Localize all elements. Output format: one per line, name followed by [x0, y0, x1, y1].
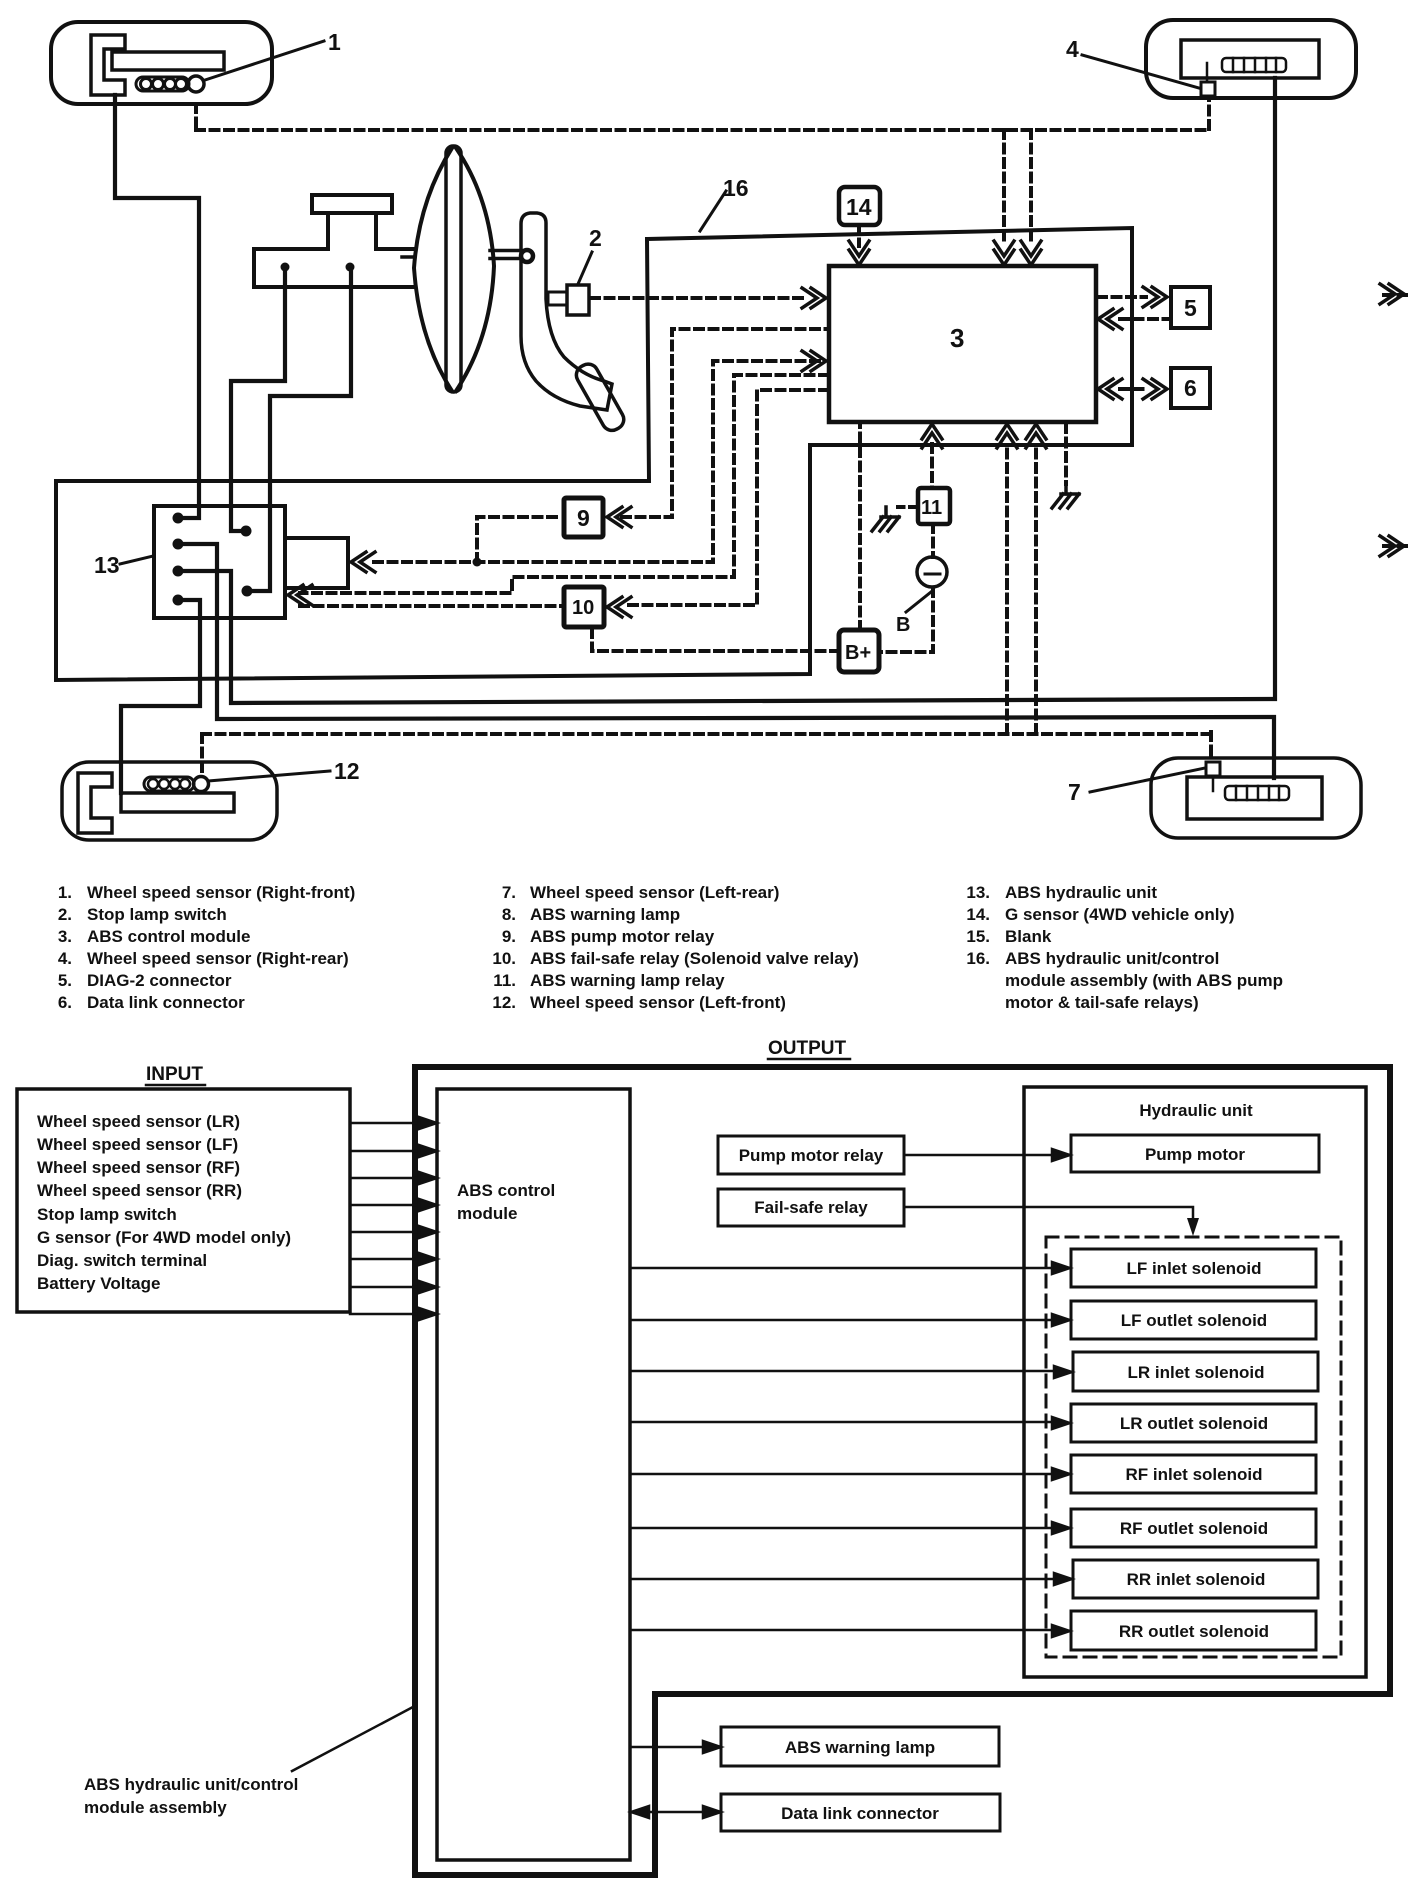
- wheel 4 sensor stem: [1206, 63, 1209, 82]
- svg-text:7: 7: [1068, 779, 1081, 805]
- brake booster shell left arc: [414, 148, 452, 391]
- svg-text:13.: 13.: [966, 883, 990, 902]
- bulb B filament: [925, 573, 940, 576]
- svg-text:Wheel speed sensor (Right-rear: Wheel speed sensor (Right-rear): [87, 949, 349, 968]
- dashed wire: module to ground right: [1064, 424, 1068, 484]
- svg-text:ABS warning lamp relay: ABS warning lamp relay: [530, 971, 725, 990]
- label 4 leader: [1082, 55, 1199, 88]
- svg-text:B+: B+: [845, 642, 871, 664]
- dashed wire: module to pump motor and relay 9: [368, 361, 819, 562]
- dashed wire: relay 9 to module: [622, 329, 827, 517]
- arrow into module left from stop lamp switch: [802, 288, 826, 308]
- hydraulic unit port pins: [173, 513, 253, 606]
- hydraulic unit title: [1139, 1101, 1253, 1120]
- svg-text:LF inlet solenoid: LF inlet solenoid: [1126, 1259, 1261, 1278]
- dashed wire: module to fail-safe relay 10: [623, 390, 828, 605]
- svg-text:Pump motor: Pump motor: [1145, 1145, 1245, 1164]
- master cylinder reservoir neck: [328, 213, 376, 249]
- svg-text:2: 2: [589, 225, 602, 251]
- dashed wire: module to data link 6: [1120, 387, 1146, 391]
- label 16 leader: [700, 191, 726, 231]
- component number labels: [94, 29, 1197, 805]
- svg-text:Wheel speed sensor (Left-front: Wheel speed sensor (Left-front): [530, 993, 786, 1012]
- booster push rod: [490, 251, 521, 259]
- svg-text:4.: 4.: [58, 949, 72, 968]
- ABS control module 3 box: [829, 266, 1096, 422]
- dashed wire: wheel 7 sensor to module: [1034, 446, 1038, 733]
- svg-text:Battery Voltage: Battery Voltage: [37, 1274, 160, 1293]
- dashed wire: right edge stub top: [1384, 293, 1408, 297]
- wheel 12 sensor ring: [144, 777, 194, 791]
- svg-text:9: 9: [577, 505, 590, 531]
- arrow into module top from sensor drop left: [994, 241, 1014, 265]
- ABS warning lamp box: [721, 1727, 999, 1766]
- wheel 7 teeth strip: [1225, 786, 1289, 800]
- wheel 4 sensor head: [1201, 82, 1215, 96]
- label B leader: [906, 592, 931, 612]
- ABS fail-safe relay box 10: [564, 587, 604, 627]
- svg-text:Data link connector: Data link connector: [87, 993, 245, 1012]
- svg-text:6: 6: [1184, 375, 1197, 401]
- input signal list: [37, 1112, 291, 1293]
- LR inlet solenoid box: [1073, 1352, 1318, 1391]
- arrow into module bottom from wheel 12 sensor: [997, 424, 1017, 448]
- wire: master cylinder port B to hydraulic unit: [253, 270, 351, 591]
- dashed wire: B+ to fail-safe relay 10: [592, 628, 839, 651]
- ABS warning lamp relay box 11: [918, 488, 950, 524]
- assembly label leader: [292, 1707, 413, 1771]
- svg-text:6.: 6.: [58, 993, 72, 1012]
- dashed wire: G sensor 14 to module: [857, 225, 861, 246]
- svg-text:Stop lamp switch: Stop lamp switch: [37, 1205, 177, 1224]
- arrow into relay 9 right edge: [607, 507, 631, 527]
- dashed wire: DIAG-2 to module in: [1120, 317, 1171, 321]
- svg-text:RF inlet solenoid: RF inlet solenoid: [1126, 1465, 1263, 1484]
- ground symbol at relay 11: [872, 507, 899, 531]
- svg-text:Wheel speed sensor (Right-fron: Wheel speed sensor (Right-front): [87, 883, 355, 902]
- junction node on pump feed: [473, 558, 482, 567]
- svg-text:Blank: Blank: [1005, 927, 1052, 946]
- wheel 1 sensor head: [188, 76, 204, 92]
- svg-text:2.: 2.: [58, 905, 72, 924]
- svg-text:Fail-safe relay: Fail-safe relay: [754, 1198, 868, 1217]
- dashed wire: bulb B to B+: [879, 588, 933, 652]
- master cylinder port dots: [281, 263, 355, 272]
- svg-text:14: 14: [846, 194, 872, 220]
- data link connector box 6: [1171, 368, 1210, 408]
- wheel 12 sensor ring teeth: [148, 779, 190, 789]
- svg-text:DIAG-2 connector: DIAG-2 connector: [87, 971, 232, 990]
- wheel 4 teeth strip: [1222, 58, 1286, 72]
- dashed wire: module to DIAG-2 out: [1098, 295, 1146, 299]
- svg-text:7.: 7.: [502, 883, 516, 902]
- arrow into module top from G sensor: [849, 241, 869, 265]
- input arrows: [350, 1117, 437, 1320]
- svg-text:14.: 14.: [966, 905, 990, 924]
- wheel 1 sensor ring teeth: [141, 79, 187, 90]
- dashed wire: wheel 12 sensor riser: [200, 734, 204, 774]
- stop lamp switch 2 body: [567, 285, 589, 315]
- arrow into module bottom from relay 11 chain: [922, 424, 942, 448]
- svg-text:G sensor (4WD vehicle only): G sensor (4WD vehicle only): [1005, 905, 1235, 924]
- label 2 leader: [578, 252, 592, 284]
- svg-text:module: module: [457, 1204, 517, 1223]
- svg-text:motor & tail-safe relays): motor & tail-safe relays): [1005, 993, 1199, 1012]
- svg-text:1: 1: [328, 29, 341, 55]
- svg-text:ABS hydraulic unit: ABS hydraulic unit: [1005, 883, 1157, 902]
- RF inlet solenoid box: [1071, 1455, 1316, 1493]
- pedal pivot hub: [521, 250, 533, 262]
- svg-text:Hydraulic unit: Hydraulic unit: [1139, 1101, 1253, 1120]
- ABS control module tall box: [437, 1089, 630, 1860]
- LR outlet solenoid box: [1071, 1404, 1316, 1442]
- wheel 1 caliper bracket: [91, 35, 125, 95]
- arrow into DIAG-2 box 5: [1143, 287, 1167, 307]
- wheel 12 caliper bracket: [78, 773, 112, 833]
- dashed wire: branch to relay 9 left: [477, 517, 562, 562]
- svg-text:Diag. switch terminal: Diag. switch terminal: [37, 1251, 207, 1270]
- brake pedal pad: [573, 360, 628, 433]
- wheel speed sensor 7 wheel outline (left-rear): [1151, 758, 1361, 838]
- arrow into module left from pump feed: [802, 351, 826, 371]
- dashed wire: relay 11 to bulb B: [931, 524, 935, 557]
- svg-text:LR outlet solenoid: LR outlet solenoid: [1120, 1414, 1268, 1433]
- svg-text:module assembly: module assembly: [84, 1798, 227, 1817]
- ground symbol at module right: [1052, 484, 1079, 508]
- wheel 12 sensor head: [194, 777, 209, 792]
- svg-text:15.: 15.: [966, 927, 990, 946]
- svg-text:12: 12: [334, 758, 360, 784]
- wheel 1 sensor ring: [136, 77, 189, 91]
- svg-text:Stop lamp switch: Stop lamp switch: [87, 905, 227, 924]
- svg-text:8.: 8.: [502, 905, 516, 924]
- dashed wire: sensor bus bottom: [202, 732, 1211, 736]
- svg-text:Wheel speed sensor (LR): Wheel speed sensor (LR): [37, 1112, 240, 1131]
- svg-text:12.: 12.: [492, 993, 516, 1012]
- svg-text:1.: 1.: [58, 883, 72, 902]
- dashed wire: module to pump feed via corner: [300, 375, 828, 593]
- pump motor box: [1071, 1135, 1319, 1172]
- module to data link double arrow: [631, 1806, 721, 1818]
- fail-safe relay box: [718, 1189, 904, 1226]
- svg-text:10: 10: [572, 597, 594, 619]
- svg-text:ABS warning lamp: ABS warning lamp: [530, 905, 680, 924]
- svg-text:Wheel speed sensor (Left-rear): Wheel speed sensor (Left-rear): [530, 883, 779, 902]
- dashed wire: top sensor bus: [196, 128, 1209, 132]
- master cylinder reservoir cap: [312, 195, 392, 213]
- svg-text:LF outlet solenoid: LF outlet solenoid: [1121, 1311, 1267, 1330]
- warning lamp bulb B: [917, 557, 947, 587]
- dashed wire: wheel 4 sensor riser: [1207, 97, 1211, 129]
- svg-text:G sensor (For 4WD model only): G sensor (For 4WD model only): [37, 1228, 291, 1247]
- arrow into module bottom from wheel 7 sensor: [1026, 424, 1046, 448]
- input signal box: [17, 1089, 350, 1312]
- pump motor relay to pump motor arrow: [904, 1149, 1070, 1161]
- ABS hydraulic unit 13 box: [154, 506, 285, 618]
- wheel 1 rotor bar: [112, 52, 224, 70]
- solenoid group dashed box: [1046, 1237, 1341, 1657]
- wire: hydraulic port 4 to wheel 12 brake line: [121, 600, 200, 793]
- wire: hydraulic port 3 to wheel 4 brake line: [184, 78, 1275, 703]
- arrow right edge stub top: [1380, 284, 1404, 304]
- svg-text:ABS hydraulic unit/control: ABS hydraulic unit/control: [1005, 949, 1219, 968]
- svg-text:ABS fail-safe relay (Solenoid: ABS fail-safe relay (Solenoid valve rela…: [530, 949, 859, 968]
- dashed wire: sensor drop to module left top: [1002, 130, 1006, 246]
- svg-text:Wheel speed sensor (RF): Wheel speed sensor (RF): [37, 1158, 240, 1177]
- dashed wire: module to warning lamp relay 11: [930, 444, 934, 488]
- svg-text:RF outlet solenoid: RF outlet solenoid: [1120, 1519, 1268, 1538]
- label 12 leader: [208, 771, 330, 781]
- svg-text:INPUT: INPUT: [146, 1064, 203, 1085]
- svg-text:5: 5: [1184, 295, 1197, 321]
- arrow into hydraulic unit 13 right edge: [288, 585, 312, 605]
- fail-safe relay to solenoid group arrow: [904, 1207, 1193, 1218]
- brake pedal arm: [521, 213, 612, 410]
- hydraulic unit pump motor box: [285, 538, 348, 588]
- svg-text:B: B: [896, 614, 910, 636]
- RR outlet solenoid box: [1071, 1611, 1316, 1650]
- arrow into module right from data link 6: [1098, 379, 1122, 399]
- arrow into module right from DIAG-2: [1098, 309, 1122, 329]
- svg-text:ABS hydraulic unit/control: ABS hydraulic unit/control: [84, 1775, 298, 1794]
- svg-text:Wheel speed sensor (LF): Wheel speed sensor (LF): [37, 1135, 238, 1154]
- svg-text:10.: 10.: [492, 949, 516, 968]
- dashed wire: sensor drop to module right top: [1029, 130, 1033, 246]
- wheel speed sensor 12 wheel outline (left-front): [62, 762, 277, 840]
- wheel 7 sensor stem: [1212, 776, 1215, 791]
- pump motor relay box: [718, 1136, 904, 1174]
- B+ box: [839, 630, 879, 672]
- module to solenoid arrows: [630, 1262, 1072, 1637]
- RR inlet solenoid box: [1073, 1560, 1318, 1598]
- arrow into module top from sensor drop right: [1021, 241, 1041, 265]
- wheel speed sensor 4 wheel outline (right-rear): [1146, 20, 1356, 98]
- dashed wire: right edge stub bottom: [1384, 544, 1408, 548]
- label 7 leader: [1090, 768, 1205, 792]
- svg-text:ABS warning lamp: ABS warning lamp: [785, 1738, 935, 1757]
- wheel speed sensor 1 wheel outline (right-front): [51, 22, 272, 104]
- dashed wire: hydraulic unit to relay 10 left: [300, 604, 563, 608]
- svg-text:Wheel speed sensor (RR): Wheel speed sensor (RR): [37, 1181, 242, 1200]
- svg-text:Data link connector: Data link connector: [781, 1804, 939, 1823]
- dashed wire: relay 11 to ground: [898, 505, 918, 509]
- svg-text:3.: 3.: [58, 927, 72, 946]
- LF inlet solenoid box: [1071, 1249, 1316, 1287]
- DIAG-2 connector box 5: [1171, 287, 1210, 328]
- OUTPUT title: [768, 1038, 847, 1059]
- arrow into pump motor box: [351, 552, 375, 572]
- svg-text:9.: 9.: [502, 927, 516, 946]
- svg-text:ABS control: ABS control: [457, 1181, 555, 1200]
- svg-text:13: 13: [94, 552, 120, 578]
- wheel 12 rotor bar: [121, 793, 234, 812]
- legend column 1: [58, 883, 355, 1012]
- dashed wire: wheel 7 sensor riser: [1209, 732, 1213, 760]
- svg-text:ABS pump motor relay: ABS pump motor relay: [530, 927, 715, 946]
- svg-text:Pump motor relay: Pump motor relay: [739, 1146, 884, 1165]
- ABS pump motor relay box 9: [564, 498, 603, 537]
- data link connector box: [721, 1794, 1000, 1831]
- arrow into data link box 6: [1143, 379, 1167, 399]
- hydraulic unit box (output side): [1024, 1087, 1366, 1677]
- svg-text:3: 3: [950, 323, 964, 353]
- INPUT title: [146, 1064, 203, 1085]
- RF outlet solenoid box: [1071, 1509, 1316, 1547]
- legend column 3: [966, 883, 1283, 1012]
- dashed wire: wheel 1 sensor riser: [194, 104, 198, 130]
- svg-text:RR inlet solenoid: RR inlet solenoid: [1127, 1570, 1266, 1589]
- wire: wheel 1 sensor to hydraulic port 1: [115, 95, 199, 518]
- assembly 16 outline (ABS hydraulic unit / control module assembly with outer box): [56, 228, 1132, 680]
- label 1 leader: [205, 41, 324, 80]
- svg-text:11: 11: [921, 497, 942, 519]
- wire: hydraulic port 2 to wheel 7 brake line: [184, 544, 1274, 778]
- wheel 7 sensor head: [1206, 762, 1220, 776]
- label 13 leader: [120, 556, 153, 564]
- arrow right edge stub bottom: [1380, 536, 1404, 556]
- svg-text:16: 16: [723, 175, 749, 201]
- svg-text:module assembly (with ABS pump: module assembly (with ABS pump: [1005, 971, 1283, 990]
- module to warning lamp arrow: [630, 1741, 721, 1753]
- booster diaphragm slab: [446, 146, 461, 392]
- ABS control module text: [457, 1181, 555, 1223]
- svg-text:OUTPUT: OUTPUT: [768, 1038, 847, 1059]
- LF outlet solenoid box: [1071, 1301, 1316, 1339]
- G sensor box 14: [839, 187, 880, 225]
- wheel 4 plate: [1181, 40, 1319, 78]
- dashed wire: B+ feed up to module: [858, 424, 862, 630]
- svg-text:16.: 16.: [966, 949, 990, 968]
- arrow into relay 10 right edge: [607, 597, 631, 617]
- dashed wire: wheel 12 sensor to module: [1005, 446, 1009, 733]
- svg-text:5.: 5.: [58, 971, 72, 990]
- legend column 2: [492, 883, 858, 1012]
- svg-text:RR outlet solenoid: RR outlet solenoid: [1119, 1622, 1269, 1641]
- svg-text:LR inlet solenoid: LR inlet solenoid: [1128, 1363, 1265, 1382]
- assembly label text: [84, 1775, 298, 1817]
- stop lamp switch plug: [548, 292, 567, 305]
- svg-text:11.: 11.: [493, 971, 516, 990]
- svg-text:4: 4: [1066, 36, 1079, 62]
- svg-text:ABS control module: ABS control module: [87, 927, 250, 946]
- master cylinder body: [254, 249, 415, 287]
- master cylinder piston rod: [402, 255, 414, 259]
- wire: master cylinder port A to hydraulic unit: [231, 270, 285, 531]
- wheel 7 plate: [1187, 777, 1322, 819]
- output assembly outer box: [415, 1067, 1390, 1875]
- dashed wire: stop lamp switch to module: [591, 296, 808, 300]
- brake booster shell right arc: [456, 148, 494, 391]
